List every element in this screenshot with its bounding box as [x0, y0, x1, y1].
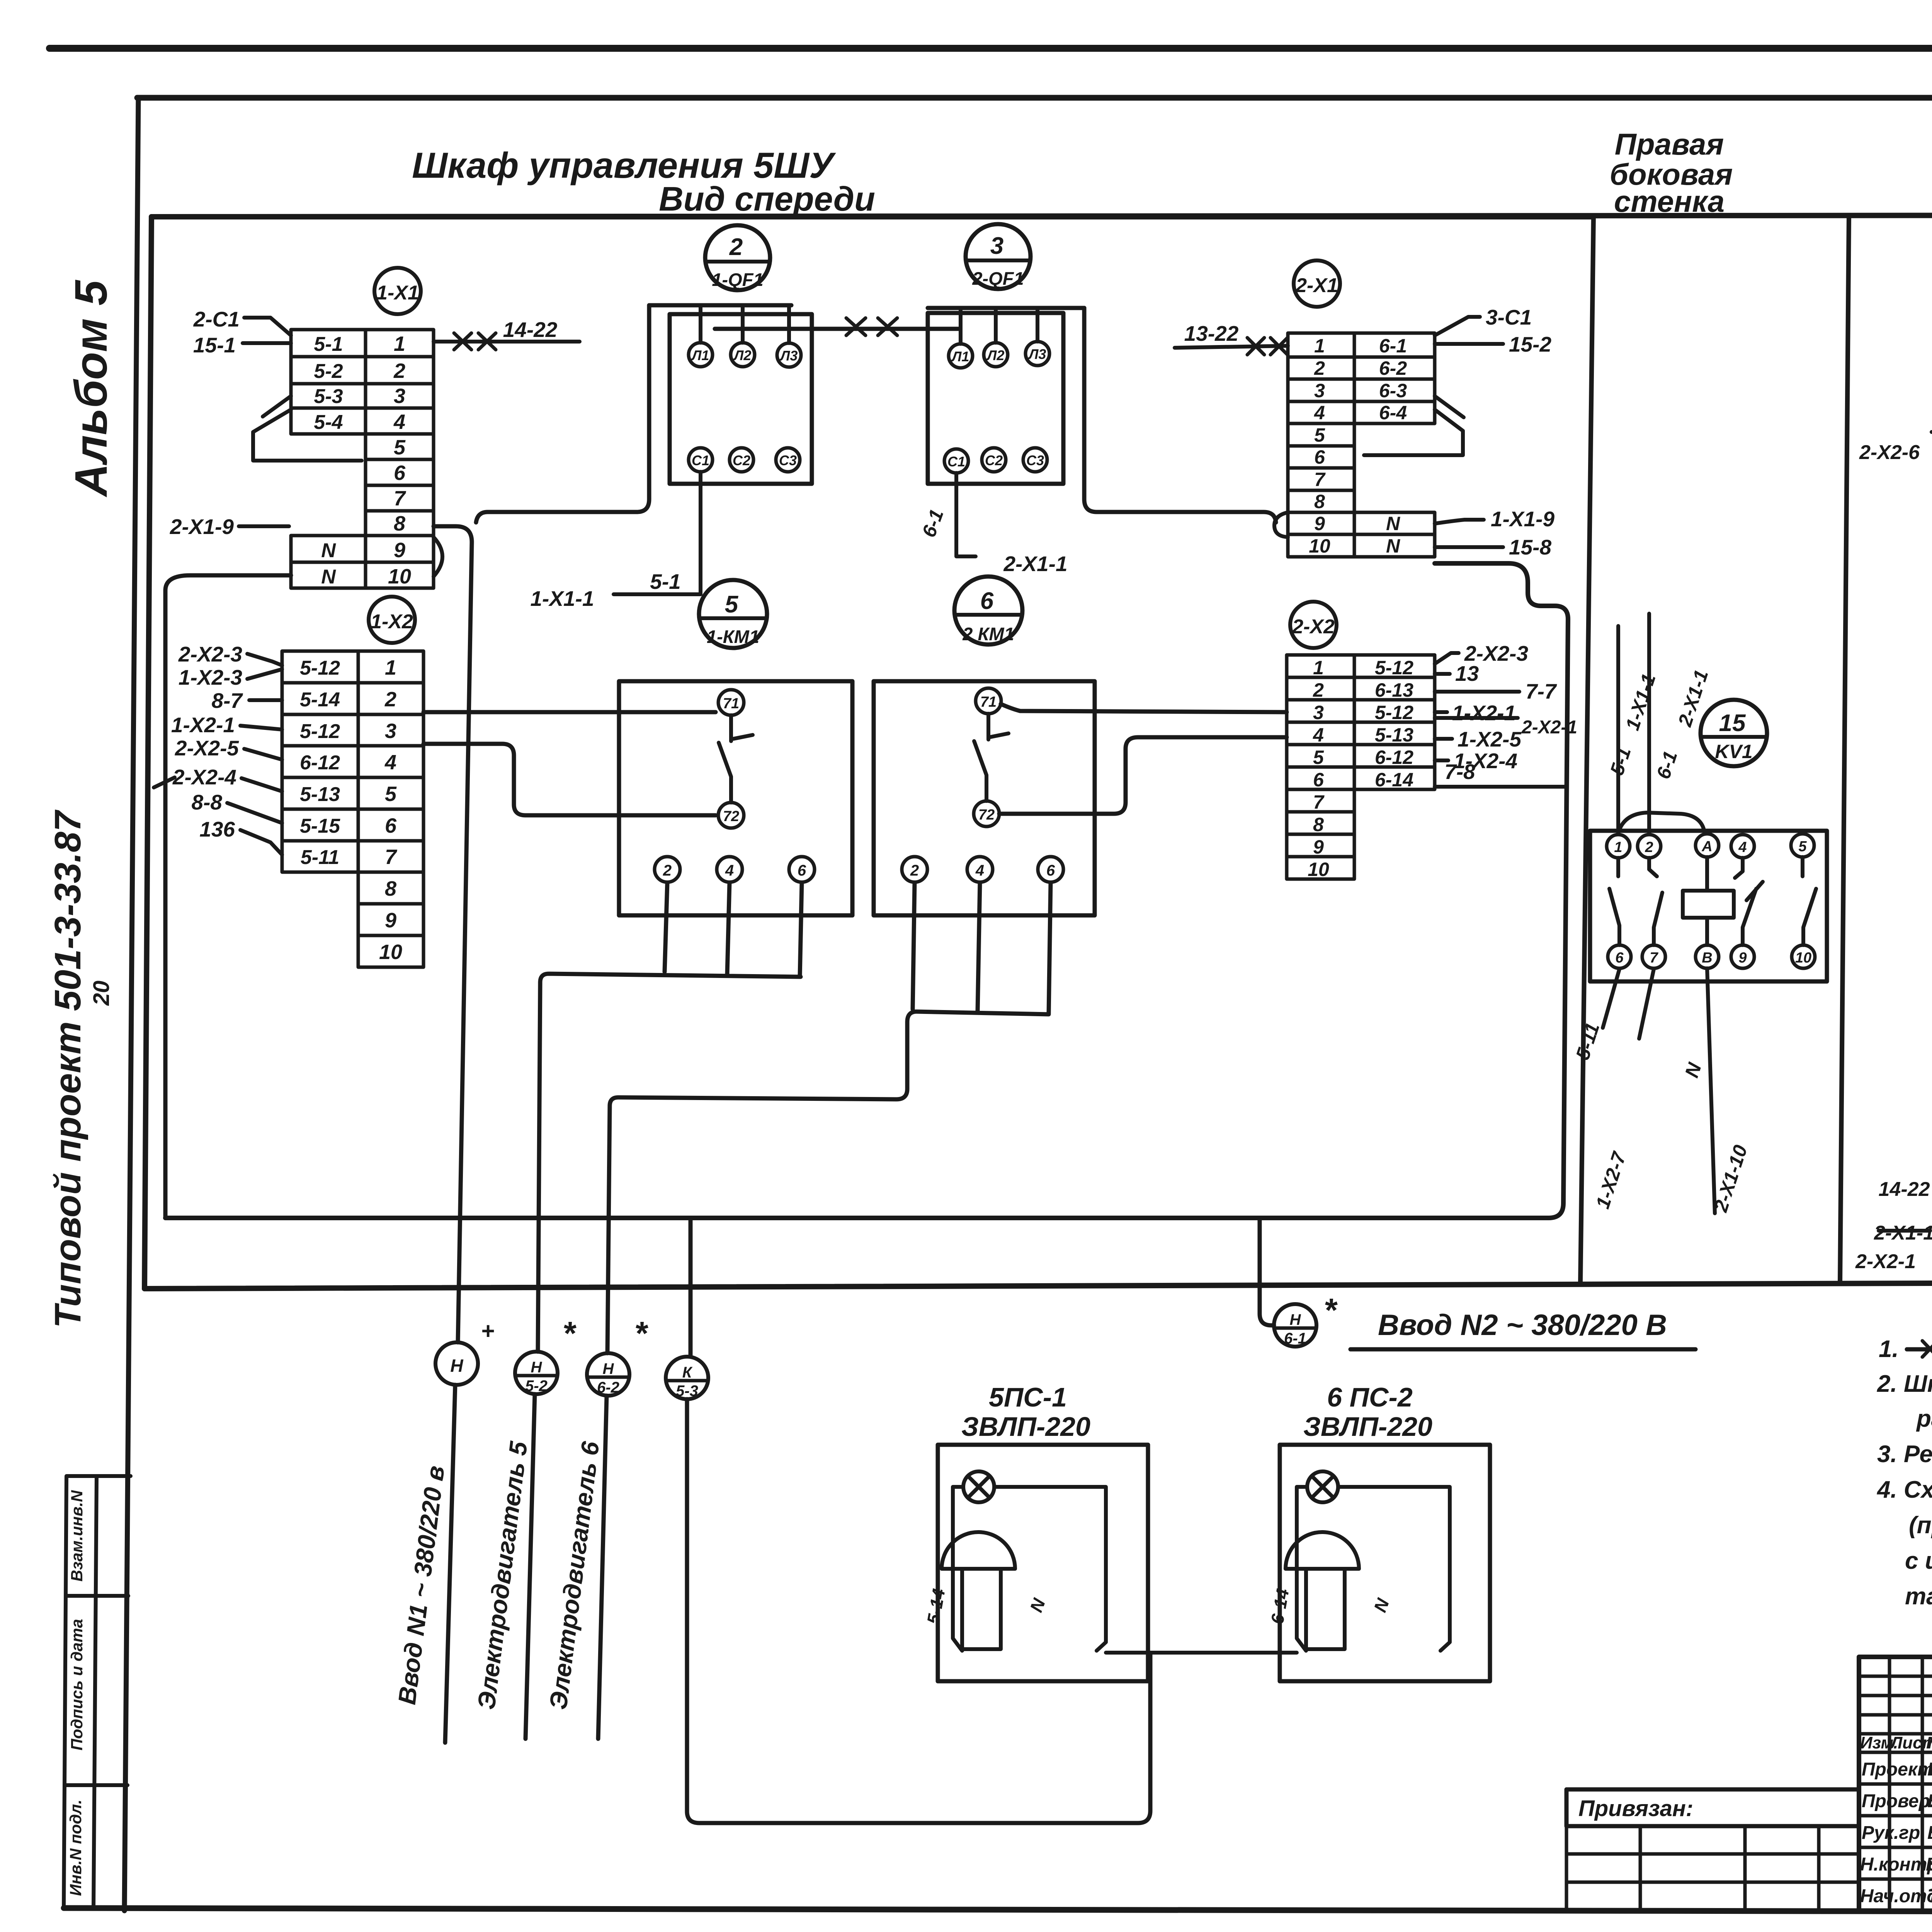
svg-text:2-С1: 2-С1: [193, 307, 240, 331]
svg-text:2: 2: [1645, 839, 1653, 855]
svg-text:1-Х2-1: 1-Х2-1: [171, 713, 235, 737]
svg-text:2: 2: [393, 359, 405, 383]
privyazan box: [1566, 1789, 1859, 1826]
svg-text:10: 10: [1308, 859, 1329, 880]
svg-text:Н: Н: [1290, 1311, 1301, 1328]
2-KM1 pin 2: [902, 857, 927, 882]
svg-text:2-Х1-1: 2-Х1-1: [1874, 1222, 1932, 1244]
svg-text:8-8: 8-8: [192, 790, 223, 814]
1-QF1 terminal C3: [776, 448, 800, 472]
wire 2-X1-9 to 1-X1: [239, 524, 289, 528]
drawing frame bottom: [64, 1908, 1932, 1913]
svg-text:6: 6: [1046, 862, 1055, 879]
KV1 pin 9: [1731, 945, 1754, 968]
svg-text:1.: 1.: [1879, 1336, 1899, 1362]
label 1-X2-4: [1435, 759, 1448, 762]
5PS-1 lamp holder body: [962, 1569, 1001, 1649]
motor6 cable line below: [598, 1396, 607, 1739]
label 7-7: [1435, 690, 1519, 694]
2-X1 wire names col: [1379, 335, 1407, 557]
1-KM1 pin 4: [717, 857, 742, 882]
1-KM1 pin 6: [789, 857, 815, 882]
lamp2 to junction wire: [1150, 1651, 1297, 1655]
wire 1-X2-3 fork: [247, 669, 282, 679]
left stamp column dividers: [65, 1596, 128, 1785]
left stamp column outer: [64, 1476, 131, 1909]
svg-text:N докум.: N докум.: [1926, 1733, 1932, 1752]
wire N row9 to vvod1 cable: [434, 526, 472, 1342]
wire 2-X2-4: [154, 777, 282, 791]
wire 2-KM1 pin72 to 2-X2 row4: [999, 737, 1287, 814]
svg-text:2-Х2-3: 2-Х2-3: [178, 642, 242, 666]
page outer border top: [49, 45, 1932, 52]
svg-text:5: 5: [1314, 424, 1325, 446]
svg-text:3: 3: [385, 719, 396, 743]
svg-text:С3: С3: [1026, 452, 1044, 468]
svg-text:Л2: Л2: [986, 347, 1005, 363]
svg-text:разделе силового - электрооб: разделе силового - электрооборудования .: [1916, 1405, 1932, 1432]
svg-text:72: 72: [978, 807, 995, 823]
6PS-2 lamp holder body: [1306, 1569, 1345, 1649]
wire 1-X2-1: [240, 726, 282, 730]
svg-text:8: 8: [385, 877, 396, 900]
svg-text:*: *: [1323, 1292, 1338, 1329]
wire N row10 to left riser: [165, 575, 291, 1218]
svg-text:1: 1: [1313, 657, 1324, 679]
1-KM1 pin 2: [655, 857, 680, 882]
cable circle H vvod1: [435, 1342, 478, 1385]
svg-text:2: 2: [384, 688, 396, 711]
svg-text:Рук.гр.: Рук.гр.: [1862, 1823, 1925, 1843]
vvod2 underline: [1350, 1347, 1696, 1352]
2-QF1 terminal L1: [949, 344, 973, 368]
terminal block label circle 2-X2: [1290, 602, 1337, 648]
svg-text:15-1: 15-1: [193, 333, 236, 357]
breaker label circle 2 / 1-QF1: [705, 225, 770, 290]
svg-text:6: 6: [394, 461, 406, 485]
svg-text:Волкова: Волкова: [1927, 1823, 1932, 1843]
svg-text:5-15: 5-15: [300, 815, 340, 837]
svg-text:3: 3: [990, 233, 1003, 259]
svg-text:6-14: 6-14: [1375, 769, 1413, 791]
svg-text:1-Х1-1: 1-Х1-1: [530, 587, 594, 611]
svg-text:3: 3: [1313, 702, 1324, 723]
svg-text:7: 7: [1314, 469, 1326, 490]
KV1 pin B: [1696, 945, 1719, 968]
svg-text:9: 9: [394, 539, 405, 562]
wire 1-X2 row3 to 1-KM1 pin 71: [423, 710, 716, 714]
svg-text:Л2: Л2: [733, 347, 752, 363]
svg-text:7-7: 7-7: [1526, 679, 1557, 703]
svg-text:4: 4: [975, 862, 984, 879]
svg-text:6-2: 6-2: [597, 1379, 619, 1396]
svg-text:1-Х1-9: 1-Х1-9: [1491, 507, 1554, 531]
2-QF1 terminal C1: [944, 449, 968, 473]
terminal block label circle 1-X2: [369, 597, 415, 643]
svg-text:71: 71: [980, 694, 997, 710]
svg-text:5-13: 5-13: [300, 783, 340, 806]
6PS-2 lamp symbol: [1307, 1471, 1338, 1502]
svg-text:9: 9: [1738, 950, 1747, 966]
2-KM1 pin 6: [1038, 857, 1063, 882]
svg-text:Н: Н: [531, 1359, 543, 1376]
KV1 contact 1-6: [1609, 858, 1619, 945]
1-KM1 pin 71: [718, 690, 744, 715]
svg-text:Провер.: Провер.: [1862, 1791, 1932, 1811]
enclosure top edge full: [151, 215, 1932, 217]
5PS-1 internal wiring: [953, 1487, 1106, 1651]
svg-text:6-1: 6-1: [1284, 1330, 1306, 1347]
svg-text:6: 6: [798, 862, 806, 879]
label 1-X1-9: [1435, 520, 1484, 524]
wire bus to K5-3: [689, 1218, 693, 1357]
svg-text:4: 4: [393, 410, 405, 434]
1-QF1 terminal L1: [689, 343, 713, 367]
terminal block label circle 2-X1: [1294, 260, 1340, 307]
label 1-X2-1: [1435, 710, 1447, 714]
svg-text:*: *: [562, 1315, 577, 1352]
1-X1 table wire names col: [314, 333, 343, 588]
svg-text:4. Схема подключения выполне: 4. Схема подключения выполнена для венти…: [1876, 1476, 1932, 1503]
svg-text:5: 5: [1798, 838, 1807, 855]
svg-text:Лист: Лист: [1889, 1733, 1932, 1752]
wire 8-7: [249, 698, 282, 702]
svg-text:5-11: 5-11: [301, 846, 339, 869]
breaker label circle 3 / 2-QF1: [966, 224, 1031, 289]
svg-text:15-8: 15-8: [1509, 535, 1551, 559]
wire 8-8: [227, 803, 282, 823]
svg-text:7: 7: [385, 845, 398, 869]
lamp fixture 5PS-1 box: [938, 1445, 1148, 1681]
2-KM1 pin 71: [976, 688, 1001, 714]
svg-text:9: 9: [385, 909, 396, 932]
terminal block label circle 1-X1: [374, 268, 421, 314]
2-X1 numbers col: [1309, 335, 1330, 557]
crossed tie bus between breakers: [715, 327, 958, 331]
1-X1 table numbers col: [388, 332, 411, 588]
svg-text:20: 20: [89, 981, 114, 1006]
svg-text:2-Х2-5: 2-Х2-5: [175, 736, 239, 760]
svg-text:Привязан:: Привязан:: [1578, 1796, 1693, 1821]
drawing frame top: [137, 95, 1932, 101]
1-QF1 supply bus: [649, 303, 791, 308]
svg-text:4: 4: [384, 751, 396, 774]
svg-text:3-С1: 3-С1: [1486, 305, 1532, 329]
title block signature rows: [1860, 1759, 1932, 1906]
svg-text:6-4: 6-4: [1379, 402, 1407, 423]
wire from 2-QF1 bus down right: [1084, 308, 1276, 522]
svg-text:В: В: [1702, 950, 1712, 966]
svg-text:Вид спереди: Вид спереди: [659, 180, 875, 218]
svg-text:9: 9: [1314, 513, 1325, 534]
svg-text:5-3: 5-3: [676, 1383, 698, 1400]
svg-text:6-13: 6-13: [1375, 679, 1413, 701]
cable circle H 6-1 vvod2: [1274, 1304, 1316, 1347]
cable circle H 6-2: [587, 1353, 629, 1396]
wire 2-C1 to 1-X1: [244, 318, 291, 335]
svg-text:8: 8: [1313, 814, 1324, 835]
wire KV1 pin6 down: [1603, 969, 1619, 1028]
wire KV1 pin1 up: [1616, 626, 1620, 833]
svg-text:4: 4: [1313, 724, 1324, 746]
svg-text:Подпись и дата: Подпись и дата: [68, 1619, 86, 1750]
svg-text:Ботиева: Ботиева: [1927, 1759, 1932, 1780]
vvod1 cable line below: [445, 1385, 455, 1743]
label 15-8: [1435, 545, 1503, 549]
wire 2-QF1 C1 down: [956, 473, 976, 556]
svg-text:3: 3: [1314, 380, 1325, 401]
wire K5-3 to lamp boxes: [687, 1399, 1150, 1823]
svg-text:8-7: 8-7: [212, 689, 243, 713]
KV1 pin 7: [1642, 945, 1665, 968]
2-X1 left hook: [1274, 512, 1288, 537]
svg-text:5: 5: [1313, 747, 1324, 768]
svg-text:С2: С2: [733, 452, 750, 468]
2-QF1 leads: [961, 308, 1037, 344]
svg-text:6: 6: [1314, 446, 1325, 468]
neutral bus wire: [165, 563, 1568, 1218]
svg-text:8: 8: [394, 512, 405, 535]
svg-text:1: 1: [394, 332, 405, 355]
wire 2-SA1 pin8 left: [1932, 410, 1932, 432]
1-KM1 auxiliary contact: [719, 715, 753, 803]
drawing frame left: [124, 98, 138, 1911]
svg-text:6 ПС-2: 6 ПС-2: [1327, 1382, 1413, 1412]
svg-text:5-12: 5-12: [300, 720, 340, 743]
svg-text:5-12: 5-12: [1375, 702, 1413, 723]
KV1 contact 2-7: [1649, 858, 1662, 945]
motor5 cable line below: [526, 1394, 535, 1739]
svg-text:4: 4: [725, 862, 734, 879]
label 2-X2-1: [1435, 716, 1518, 720]
svg-text:Н: Н: [450, 1355, 463, 1376]
svg-text:7-8: 7-8: [1444, 760, 1475, 784]
motor6 cable wires from 2-KM1: [607, 883, 1051, 1353]
svg-text:ЗВЛП-220: ЗВЛП-220: [961, 1412, 1090, 1442]
svg-text:таблице применения на листе: таблице применения на листе АОВ-12.: [1905, 1583, 1932, 1610]
2-QF1 terminal C2: [982, 448, 1006, 472]
svg-text:Н.контр.: Н.контр.: [1860, 1854, 1932, 1875]
svg-text:N: N: [321, 539, 336, 562]
svg-text:10: 10: [388, 565, 411, 588]
cable circle H 5-2: [515, 1352, 558, 1394]
svg-text:5-4: 5-4: [314, 411, 343, 434]
svg-text:2: 2: [910, 862, 919, 879]
svg-text:Проект: Проект: [1862, 1759, 1932, 1780]
svg-text:С3: С3: [779, 452, 797, 468]
2-KM1 auxiliary contact: [974, 714, 1009, 801]
5PS-1 lamp symbol: [963, 1471, 994, 1502]
svg-text:10: 10: [1309, 535, 1330, 557]
lamp1 to junction wire: [1106, 1651, 1150, 1655]
2-QF1 terminal C3: [1023, 448, 1047, 472]
svg-text:5: 5: [394, 436, 406, 459]
svg-text:+: +: [481, 1318, 494, 1344]
svg-text:72: 72: [723, 808, 739, 825]
1-X2 table numbers col: [379, 656, 402, 964]
svg-text:Правая: Правая: [1615, 127, 1724, 161]
label 2-X2-3: [1435, 653, 1459, 664]
svg-text:1-QF1: 1-QF1: [712, 269, 763, 290]
vvod2 drop to H6-1: [1260, 1218, 1274, 1325]
svg-text:Нач.отд.: Нач.отд.: [1860, 1886, 1932, 1906]
svg-text:Л3: Л3: [1028, 346, 1046, 362]
divider side-wall/door: [1840, 215, 1849, 1282]
wire 15-1 to 1-X1: [243, 341, 291, 345]
relay KV1 box: [1590, 831, 1827, 981]
2-X2 numbers col: [1308, 657, 1329, 880]
contactor 1-KM1 box: [619, 681, 852, 915]
svg-text:С1: С1: [947, 454, 965, 469]
svg-text:Л1: Л1: [951, 349, 969, 364]
svg-text:8: 8: [1314, 491, 1325, 512]
contactor 2-KM1 box: [874, 681, 1095, 915]
2-QF1 supply bus: [928, 306, 1084, 310]
svg-text:1-КМ1: 1-КМ1: [707, 626, 759, 647]
svg-text:7: 7: [1650, 950, 1658, 966]
2-QF1 terminal L2: [984, 343, 1008, 367]
1-QF1 terminal L2: [731, 343, 755, 367]
svg-text:5-12: 5-12: [300, 657, 340, 679]
svg-text:Типовой проект 501-3-33.87: Типовой проект 501-3-33.87: [47, 809, 88, 1328]
svg-text:N: N: [321, 566, 336, 588]
svg-text:6: 6: [1615, 950, 1624, 966]
svg-text:5-2: 5-2: [525, 1378, 548, 1395]
svg-text:N: N: [1386, 535, 1400, 557]
svg-text:(привода NN 5,6), для вентиля: (привода NN 5,6), для вентиляторов В4, В…: [1909, 1512, 1932, 1539]
svg-text:Толодник: Толодник: [1927, 1886, 1932, 1906]
2-KM1 pin 72: [974, 801, 999, 827]
cabinet front-view enclosure: [145, 217, 1594, 1289]
svg-text:1: 1: [1314, 335, 1325, 357]
title block small grid rows: [1859, 1657, 1932, 1911]
svg-text:1-Х1: 1-Х1: [376, 282, 419, 304]
svg-text:*: *: [634, 1315, 648, 1352]
svg-text:2-Х1: 2-Х1: [1295, 274, 1338, 297]
svg-text:3: 3: [394, 384, 405, 408]
2-QF1 terminal L3: [1026, 342, 1049, 366]
KV1 pin A: [1696, 834, 1719, 857]
title block outer: [1859, 1657, 1932, 1911]
wire KV1 pin2 up: [1647, 614, 1651, 834]
1-X2 table wire names col: [300, 657, 340, 869]
motor5 cable wires from 1-KM1: [538, 883, 802, 1352]
svg-text:5-13: 5-13: [1375, 724, 1413, 746]
svg-text:6-12: 6-12: [1375, 747, 1413, 768]
wire KV1 pin7 down: [1639, 969, 1654, 1039]
wire KV1 pinB down with N: [1707, 968, 1715, 1213]
svg-text:2-Х2-6: 2-Х2-6: [1859, 441, 1920, 464]
svg-text:4: 4: [1738, 839, 1747, 855]
svg-text:2-Х1-9: 2-Х1-9: [170, 515, 234, 539]
svg-text:15-2: 15-2: [1509, 332, 1551, 356]
svg-text:1-Х2: 1-Х2: [371, 611, 413, 633]
svg-text:6-12: 6-12: [300, 752, 340, 774]
1-QF1 terminal C2: [730, 448, 753, 472]
KV1 top jumper: [1618, 813, 1704, 833]
KV1 pin 1: [1607, 835, 1630, 858]
KV1 pin 5: [1791, 834, 1814, 857]
6PS-2 lamp holder dome: [1286, 1532, 1359, 1569]
svg-text:1-Х2-5: 1-Х2-5: [1458, 727, 1522, 751]
svg-text:1-Х2-3: 1-Х2-3: [179, 665, 242, 689]
1-QF1 terminal L3: [777, 343, 801, 367]
svg-text:ЗВЛП-220: ЗВЛП-220: [1303, 1412, 1432, 1442]
svg-text:KV1: KV1: [1715, 741, 1752, 762]
svg-text:Взам.инв.N: Взам.инв.N: [68, 1490, 86, 1582]
svg-text:5-3: 5-3: [314, 385, 343, 408]
svg-text:5-1: 5-1: [314, 333, 343, 355]
svg-text:1: 1: [1614, 839, 1622, 855]
svg-text:К: К: [682, 1364, 693, 1381]
label 1-X2-5: [1435, 737, 1452, 741]
KV1 pin 2: [1638, 835, 1661, 858]
svg-text:6-2: 6-2: [1379, 357, 1407, 379]
crossed wire 13-22 demounted: [1175, 346, 1288, 348]
svg-text:2 КМ1: 2 КМ1: [962, 624, 1014, 644]
svg-text:5: 5: [725, 591, 739, 618]
lamp fixture 6PS-2 box: [1280, 1445, 1490, 1681]
svg-text:14-22: 14-22: [1879, 1178, 1930, 1201]
svg-text:2: 2: [1313, 679, 1324, 701]
svg-text:7: 7: [1313, 791, 1325, 813]
wire 2-X2-5: [244, 749, 282, 760]
1-X1 right hook: [434, 537, 442, 577]
svg-text:N: N: [1386, 513, 1400, 534]
svg-text:13: 13: [1455, 662, 1479, 685]
privyazan grid: [1566, 1826, 1859, 1911]
svg-text:3. Реле KV1 установить и м: 3. Реле KV1 установить и монтировать на …: [1877, 1441, 1932, 1468]
svg-text:С1: С1: [692, 452, 709, 468]
contactor label circle 6 / 2-KM1: [954, 577, 1022, 645]
svg-text:6: 6: [1313, 769, 1324, 791]
svg-text:136: 136: [199, 817, 235, 841]
title block header row texts: [1860, 1733, 1932, 1752]
crossed wire 14-22 demounted: [434, 340, 580, 344]
svg-text:2-Х2-4: 2-Х2-4: [172, 765, 236, 789]
svg-text:2-QF1: 2-QF1: [972, 268, 1024, 289]
svg-text:4: 4: [1314, 402, 1325, 423]
svg-text:5-14: 5-14: [300, 689, 340, 711]
wire 1-QF1 C1 down to 5-1: [614, 472, 701, 594]
svg-text:2: 2: [1314, 357, 1325, 379]
cable circle K 5-3: [666, 1357, 708, 1399]
svg-text:Н: Н: [603, 1361, 614, 1378]
svg-text:2-Х1-1: 2-Х1-1: [1003, 552, 1067, 576]
KV1 pin 10: [1792, 945, 1815, 968]
svg-text:9: 9: [1313, 836, 1324, 858]
6PS-2 internal wiring: [1297, 1487, 1450, 1651]
1-X1 left bracket wires: [253, 396, 362, 461]
divider front/side-wall: [1580, 216, 1594, 1284]
svg-text:5-2: 5-2: [314, 360, 343, 383]
svg-text:5-1: 5-1: [650, 570, 681, 594]
label 7-8: [1435, 785, 1565, 789]
2-KM1 pin 4: [967, 857, 993, 882]
svg-text:5ПС-1: 5ПС-1: [989, 1382, 1067, 1412]
svg-text:Л1: Л1: [691, 347, 709, 363]
KV1 pin 6: [1608, 945, 1631, 968]
svg-text:14-22: 14-22: [503, 318, 558, 342]
svg-text:Альбом 5: Альбом 5: [66, 279, 117, 498]
terminal table 2-X2: [1287, 655, 1435, 879]
wire from 1-QF1 down left: [476, 305, 649, 522]
svg-text:Волкова: Волкова: [1927, 1791, 1932, 1811]
KV1 coil: [1683, 891, 1734, 918]
wire 136: [240, 830, 282, 855]
breaker 1-QF1 box: [670, 314, 812, 484]
5PS-1 lamp holder dome: [942, 1532, 1015, 1569]
